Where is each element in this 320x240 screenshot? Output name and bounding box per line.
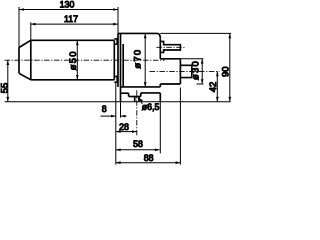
- svg-text:ø6,5: ø6,5: [142, 102, 160, 112]
- svg-text:ø30: ø30: [191, 60, 202, 80]
- svg-text:130: 130: [60, 0, 75, 10]
- svg-text:ø50: ø50: [68, 50, 79, 70]
- svg-text:90: 90: [221, 66, 232, 77]
- svg-text:117: 117: [64, 14, 78, 24]
- svg-text:42: 42: [208, 82, 219, 93]
- svg-text:28: 28: [119, 122, 129, 132]
- svg-text:58: 58: [133, 139, 143, 149]
- svg-text:ø70: ø70: [133, 49, 144, 69]
- svg-text:88: 88: [144, 153, 154, 163]
- svg-text:8: 8: [102, 104, 107, 114]
- svg-text:55: 55: [0, 83, 11, 94]
